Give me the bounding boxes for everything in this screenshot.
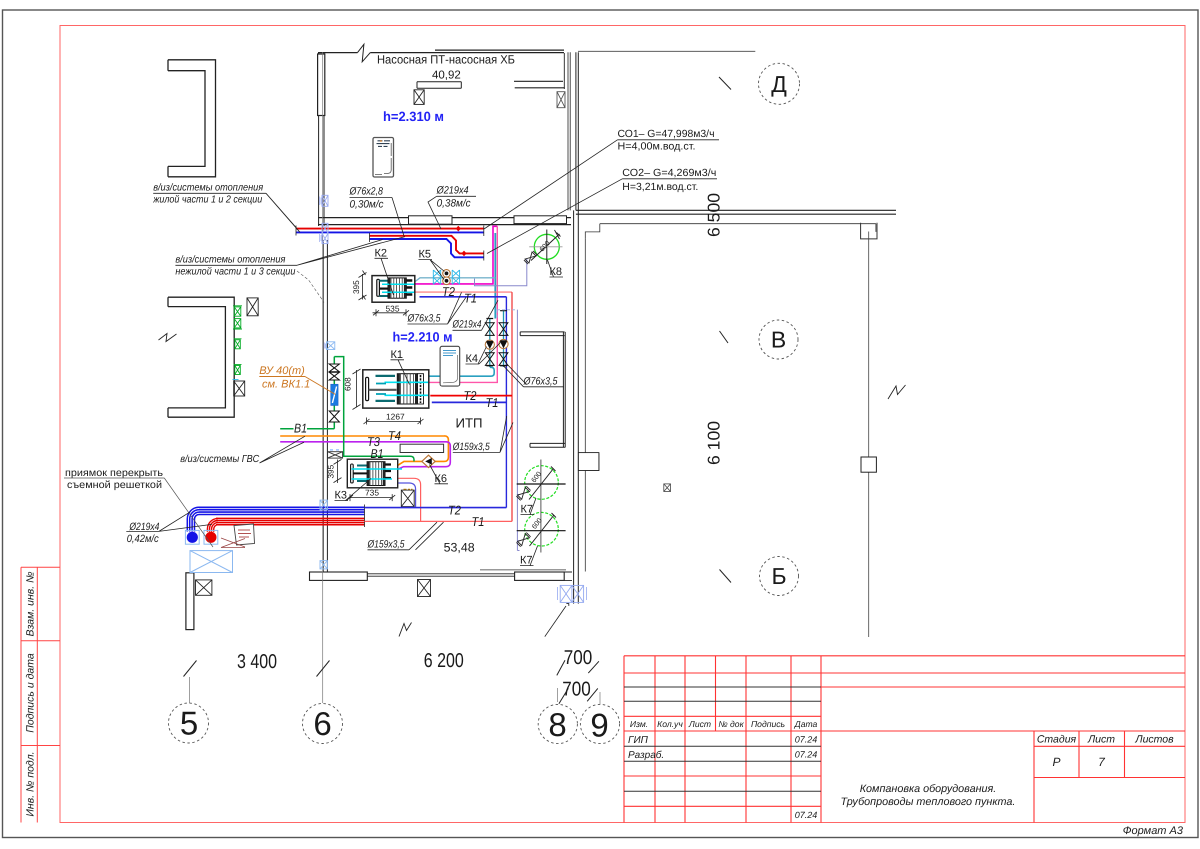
svg-text:В1: В1 xyxy=(294,420,307,435)
valve on green 1 xyxy=(329,364,339,380)
end ticks at 484 xyxy=(483,226,485,261)
pilaster on ITP right wall xyxy=(578,453,599,471)
tag box bottom left xyxy=(234,524,255,545)
start ticks pair A xyxy=(296,226,370,243)
svg-text:см. ВК1.1: см. ВК1.1 xyxy=(262,379,310,391)
flange square red xyxy=(204,530,218,544)
valve on green 2 xyxy=(329,411,339,422)
svg-text:53,48: 53,48 xyxy=(444,541,475,555)
label K7 upper xyxy=(521,498,537,516)
pump K7 upper xyxy=(516,460,565,507)
svg-text:Т2: Т2 xyxy=(464,388,477,403)
slashes 700 lower xyxy=(559,688,598,703)
dim 395 K3 xyxy=(327,459,342,483)
tiny tag marks above ITP column xyxy=(404,488,413,490)
T2 upper light red from K2 xyxy=(415,291,512,293)
svg-text:735: 735 xyxy=(365,488,379,498)
white slash in VU xyxy=(332,387,336,404)
svg-text:К1: К1 xyxy=(391,349,404,361)
left stamp column xyxy=(21,567,60,822)
svg-text:Взам. инв. №: Взам. инв. № xyxy=(25,572,37,637)
wall break symbol top xyxy=(358,44,371,62)
ledge line bottom wall xyxy=(480,569,566,571)
svg-text:Ø159x3,5: Ø159x3,5 xyxy=(367,538,405,550)
svg-text:07.24: 07.24 xyxy=(795,750,818,760)
svg-text:Листов: Листов xyxy=(1134,734,1174,746)
K4 assembly risers teal xyxy=(490,311,504,367)
svg-text:07.24: 07.24 xyxy=(795,735,818,745)
dim 608 K1 xyxy=(344,369,361,410)
label d219x4 bottom left xyxy=(127,521,160,545)
svg-text:Насосная ПТ-насосная ХБ: Насосная ПТ-насосная ХБ xyxy=(377,53,515,67)
bundle blue elbow xyxy=(187,507,199,531)
big-room inner left line xyxy=(585,239,599,572)
svg-text:В: В xyxy=(771,327,786,353)
pit crossed lightblue xyxy=(190,551,233,573)
pipe pair B blue with jog xyxy=(370,239,484,257)
title header: Изм Кол.уч Лист №док Подпись Дата xyxy=(630,719,818,729)
tall crossed box near left room xyxy=(247,298,258,316)
dim slash axis6 xyxy=(317,661,330,677)
svg-text:Ø219x4: Ø219x4 xyxy=(436,185,469,197)
svg-text:Стадия: Стадия xyxy=(1037,734,1077,746)
big-room center column line xyxy=(868,232,870,638)
title block grid xyxy=(624,656,1185,823)
flow diamond pair A xyxy=(456,226,461,232)
T1 upper blue from K2 xyxy=(420,296,507,298)
svg-text:535: 535 xyxy=(386,303,400,313)
open square column on line xyxy=(861,457,876,472)
equipment outline rect near T3 xyxy=(400,444,444,452)
document name xyxy=(841,783,1016,808)
pipe pair B red with jog xyxy=(370,236,484,254)
svg-text:Ø219x4: Ø219x4 xyxy=(452,319,482,331)
axis 9 stub xyxy=(599,692,601,704)
label K6 xyxy=(430,465,449,485)
svg-text:608: 608 xyxy=(344,377,353,391)
leader to axis 8 from wall xyxy=(545,606,566,637)
svg-text:Ø76x2,8: Ø76x2,8 xyxy=(349,186,383,198)
svg-text:0,42м/с: 0,42м/с xyxy=(127,533,160,545)
bundle red elbow xyxy=(207,518,218,531)
svg-text:№ док: № док xyxy=(718,719,744,729)
svg-text:К6: К6 xyxy=(435,473,448,485)
svg-text:5: 5 xyxy=(180,705,198,742)
label d219x4 top xyxy=(436,185,472,210)
label CO2 xyxy=(622,168,716,193)
column П right end xyxy=(861,223,877,239)
svg-text:Н=3,21м.вод.ст.: Н=3,21м.вод.ст. xyxy=(622,182,698,193)
break symbol right wall xyxy=(888,385,906,399)
svg-text:Компановка оборудования.: Компановка оборудования. xyxy=(860,783,997,795)
interior room bottom wall xyxy=(530,443,565,447)
sleeve axis6 lower1 xyxy=(320,500,327,510)
title block row lines black xyxy=(624,687,821,791)
T3 purple line xyxy=(280,442,450,470)
grid bubble В xyxy=(759,320,798,359)
title rows ГИП / Разраб. xyxy=(628,735,664,761)
slashes 700 upper xyxy=(557,660,599,675)
green pipe V1 riser xyxy=(280,357,414,462)
pump K8 xyxy=(524,230,563,265)
label K4 xyxy=(466,343,501,366)
svg-text:Лист: Лист xyxy=(688,719,711,729)
svg-text:Подпись: Подпись xyxy=(751,719,786,729)
riser box 5 black xyxy=(233,380,245,397)
svg-text:СО1– G=47,998м3/ч: СО1– G=47,998м3/ч xyxy=(618,129,715,140)
svg-text:Формат А3: Формат А3 xyxy=(1123,825,1184,837)
grid bubble Б xyxy=(760,557,799,596)
svg-text:ГИП: ГИП xyxy=(628,735,649,746)
pipe pair A blue return xyxy=(296,231,484,233)
svg-text:0,30м/с: 0,30м/с xyxy=(350,199,385,211)
svg-text:Т2: Т2 xyxy=(448,503,461,518)
dim 395 K2 xyxy=(352,271,367,301)
svg-text:Б: Б xyxy=(771,563,786,589)
sleeve axis6 lower2 xyxy=(320,561,327,569)
light cyan pipe K1 to K4 xyxy=(429,367,494,376)
wall pump-room bottom xyxy=(318,218,571,225)
cyan valve group left of K5 xyxy=(433,270,459,284)
bundle blue lines bottom xyxy=(199,507,365,514)
label otopl nezhiloy xyxy=(175,255,295,278)
wall ITP bottom thin middle xyxy=(367,574,514,576)
lintel 1 (left) xyxy=(417,82,461,88)
label priyamok xyxy=(65,468,163,491)
svg-text:Разраб.: Разраб. xyxy=(628,750,664,761)
column box under lintel 1 xyxy=(414,90,424,105)
svg-text:К4: К4 xyxy=(466,353,479,365)
flange square blue xyxy=(185,530,199,544)
svg-text:Ø76x3,5: Ø76x3,5 xyxy=(407,313,441,325)
grid bubble Д xyxy=(759,63,800,104)
dark red X marker xyxy=(221,538,245,548)
svg-text:В1: В1 xyxy=(371,446,384,461)
heat exchanger K2 xyxy=(372,276,415,303)
riser symbol group left wall 1 xyxy=(233,306,242,316)
niche 2 pump-room bottom wall xyxy=(514,216,567,224)
grid bubble 9 xyxy=(580,704,619,743)
svg-text:приямок перекрыть: приямок перекрыть xyxy=(65,468,163,479)
svg-text:жилой части 1 и 2 секции: жилой части 1 и 2 секции xyxy=(152,195,262,206)
dashed indigo link xyxy=(497,310,517,319)
dim 535 K2 xyxy=(373,303,410,316)
svg-text:съемной решеткой: съемной решеткой xyxy=(67,480,162,491)
pumps K4 circles xyxy=(485,339,508,349)
cabinet pump room xyxy=(373,138,394,178)
pumps K5 xyxy=(443,270,451,285)
svg-text:Трубопроводы теплового пункта.: Трубопроводы теплового пункта. xyxy=(841,796,1016,808)
label VU orange xyxy=(259,365,310,391)
grid bubble 6 xyxy=(303,704,343,744)
label d76x2.8 xyxy=(349,186,384,211)
label K8 xyxy=(548,260,564,278)
break symbol left room xyxy=(159,334,177,342)
pilaster left wall xyxy=(318,54,325,116)
svg-text:Изм.: Изм. xyxy=(630,719,648,729)
svg-text:Т1: Т1 xyxy=(464,291,477,306)
svg-text:К2: К2 xyxy=(375,247,388,259)
flange circle blue xyxy=(187,532,198,543)
bundle end tick xyxy=(364,505,366,528)
pump K6 xyxy=(422,455,435,467)
sleeve wall mid xyxy=(324,342,335,350)
svg-text:07.24: 07.24 xyxy=(795,810,818,820)
break symbol bottom center xyxy=(399,623,412,637)
T4 orange line xyxy=(280,436,448,466)
wall thin upper-right xyxy=(578,50,755,52)
svg-text:3 400: 3 400 xyxy=(237,651,277,673)
svg-text:Т1: Т1 xyxy=(472,514,485,529)
svg-text:700: 700 xyxy=(564,647,593,669)
valves K4 top pair xyxy=(485,323,508,336)
label K2 xyxy=(375,247,394,295)
niche 1 pump-room bottom wall xyxy=(409,216,453,224)
valves K4 bottom pair xyxy=(485,353,508,366)
wall ITP right vertical xyxy=(574,52,579,603)
sleeve bottom wall double xyxy=(558,585,587,602)
wall big-room top xyxy=(576,210,896,214)
dim slash axis5 xyxy=(184,661,197,677)
crossed column box bottom-left xyxy=(196,580,212,595)
svg-text:Кол.уч: Кол.уч xyxy=(657,719,683,729)
label K7 lower xyxy=(520,546,538,567)
axis 8 stub xyxy=(557,688,559,702)
T2 mid red from K1 xyxy=(430,395,512,397)
svg-text:6 500: 6 500 xyxy=(705,193,724,237)
sleeve wall upper xyxy=(320,195,329,206)
svg-text:Д: Д xyxy=(771,71,787,97)
red riser vertical xyxy=(511,292,513,521)
svg-text:395: 395 xyxy=(327,464,336,478)
dim 1267 K1 xyxy=(364,412,424,425)
slash near Б xyxy=(720,570,732,583)
pink riser 2 to K1 xyxy=(429,226,498,382)
wall ITP bottom right thick segment xyxy=(515,572,565,580)
svg-text:6 200: 6 200 xyxy=(424,650,464,672)
riser symbol 3 xyxy=(234,339,242,349)
bundle red lines bottom xyxy=(216,518,365,524)
wall bar bottom-left xyxy=(186,573,194,630)
lower-left room outline xyxy=(168,297,234,417)
svg-text:8: 8 xyxy=(548,706,566,743)
grid bubble 8 xyxy=(538,704,577,743)
wall pump-room right vertical xyxy=(568,52,570,210)
riser top/bottom caps xyxy=(486,311,507,366)
indigo riser from K8 to K7 xyxy=(475,259,527,286)
indigo riser to K7 xyxy=(517,310,519,551)
slash near В xyxy=(720,331,729,343)
axis 6 line xyxy=(322,52,324,703)
dates 07.24 xyxy=(795,735,818,821)
cyan riser K5 line xyxy=(494,233,496,319)
svg-text:К5: К5 xyxy=(419,249,432,261)
heat exchanger K3 B1 xyxy=(347,459,402,488)
svg-text:700: 700 xyxy=(562,678,591,700)
svg-text:Р: Р xyxy=(1052,755,1060,769)
svg-text:Подпись и дата: Подпись и дата xyxy=(25,653,37,733)
column box under lintel 2 xyxy=(557,92,565,108)
pump K7 lower xyxy=(516,506,565,553)
svg-text:Ø159x3,5: Ø159x3,5 xyxy=(452,441,490,453)
svg-text:Ø76x3,5: Ø76x3,5 xyxy=(523,375,558,387)
indigo stubs to K7 pumps xyxy=(517,495,519,541)
crossed column box ITP xyxy=(401,490,414,507)
svg-text:в/из/системы отопления: в/из/системы отопления xyxy=(153,183,263,194)
svg-text:нежилой части 1 и 3 секции: нежилой части 1 и 3 секции xyxy=(175,267,295,278)
label K5 xyxy=(419,249,445,280)
Р 7 values xyxy=(1052,755,1106,769)
svg-text:40,92: 40,92 xyxy=(432,70,461,82)
svg-text:ВУ 40(m): ВУ 40(m) xyxy=(259,365,305,377)
leader dashed to wall xyxy=(297,271,324,302)
label CO1 xyxy=(618,129,715,153)
upper-left room outline xyxy=(168,60,216,177)
wall left vertical xyxy=(319,52,328,572)
K5 suction line light teal xyxy=(415,278,495,282)
interior room top wall xyxy=(520,332,564,336)
tank ITP xyxy=(440,346,460,386)
pipe T1 supply pair A red xyxy=(296,228,484,230)
svg-text:Т1: Т1 xyxy=(486,395,499,410)
riser symbol group left wall 2 xyxy=(233,319,242,329)
svg-text:1267: 1267 xyxy=(386,412,405,422)
wall pump-room top xyxy=(318,50,564,53)
sleeve at pipe crossing on wall xyxy=(320,223,329,243)
dim 735 K3 xyxy=(347,488,395,502)
magenta riser 1 to K2 xyxy=(415,226,497,284)
slash near Д xyxy=(719,77,731,90)
svg-text:К7: К7 xyxy=(521,504,534,516)
T1 mid blue from K1 xyxy=(432,401,507,403)
svg-text:Инв. № подл.: Инв. № подл. xyxy=(25,751,37,816)
heat exchanger K1 xyxy=(363,370,429,408)
interior room right wall xyxy=(563,332,565,448)
svg-text:К3: К3 xyxy=(335,490,348,502)
svg-text:395: 395 xyxy=(352,280,361,294)
water meter VU blue xyxy=(331,384,338,405)
label otopl zhiloy xyxy=(152,183,263,206)
sleeve box wall T3/T4 crossing xyxy=(328,450,343,458)
blue riser vertical xyxy=(505,297,507,508)
wall ITP bottom left thick segment xyxy=(310,572,368,580)
svg-text:Т2: Т2 xyxy=(442,284,455,299)
riser symbol 4 xyxy=(234,364,242,374)
Стадия Лист Листов header xyxy=(1037,734,1174,746)
tiny crossed box big room xyxy=(664,484,671,492)
T1 bottom light red xyxy=(365,520,513,522)
svg-text:в/из/системы отопления: в/из/системы отопления xyxy=(175,255,285,266)
svg-text:h=2.310 м: h=2.310 м xyxy=(383,109,444,124)
svg-text:Т4: Т4 xyxy=(388,428,401,443)
axis 5 stub xyxy=(189,677,191,703)
svg-text:6: 6 xyxy=(313,705,331,742)
crossed column box bottom-center xyxy=(418,580,431,597)
T2 bottom blue xyxy=(365,507,507,509)
svg-text:6 100: 6 100 xyxy=(705,421,724,465)
svg-text:СО2– G=4,269м3/ч: СО2– G=4,269м3/ч xyxy=(622,168,716,179)
flow diamond pair B xyxy=(461,251,466,257)
violet B1 to T2 bottom xyxy=(397,483,416,508)
svg-text:ИТП: ИТП xyxy=(456,416,483,431)
lintel 2 (right) xyxy=(514,81,565,88)
label K1 xyxy=(391,349,410,385)
svg-text:в/из/системы ГВС: в/из/системы ГВС xyxy=(180,454,260,465)
magenta B1 out xyxy=(397,478,421,521)
svg-text:h=2.210 м: h=2.210 м xyxy=(393,330,453,345)
svg-text:Лист: Лист xyxy=(1087,734,1115,746)
WALLS_START xyxy=(159,44,906,637)
grid bubble 5 xyxy=(169,703,209,743)
label K3 xyxy=(335,479,372,502)
wall bottom right end piece xyxy=(564,572,572,606)
svg-text:9: 9 xyxy=(590,707,608,744)
big-room inner top line xyxy=(585,224,876,239)
door jamb top right of pump room xyxy=(563,53,565,89)
flange circle red xyxy=(205,532,216,543)
svg-text:Н=4,00м.вод.ст.: Н=4,00м.вод.ст. xyxy=(618,142,696,153)
svg-text:0,38м/с: 0,38м/с xyxy=(437,197,472,209)
svg-text:Дата: Дата xyxy=(794,719,818,729)
